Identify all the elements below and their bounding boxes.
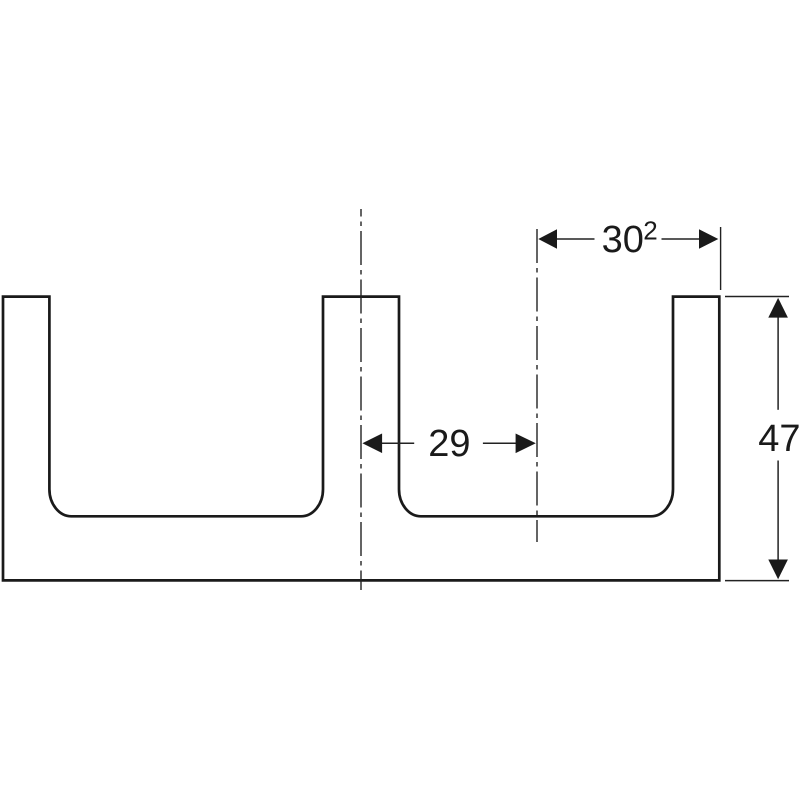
dimension 47 line upper segment [777,317,779,410]
dimension 29 line left segment [382,442,414,444]
svg-text:47: 47 [758,418,800,460]
centerline left [360,209,362,590]
dimension 302 line right segment [662,238,701,240]
arrowhead 47 top [768,298,788,318]
extension line 302 [720,227,722,290]
arrowhead 302 left [538,229,557,249]
dimension 302 line left segment [556,238,595,240]
svg-text:2: 2 [643,216,657,246]
extension line 47 top [725,296,789,298]
dimension 47 line lower segment [777,461,779,561]
svg-text:30: 30 [602,219,644,261]
arrowhead 29 right [516,434,536,454]
svg-text:29: 29 [428,423,470,465]
arrowhead 29 left [362,434,382,454]
centerline right [536,225,538,542]
arrowhead 302 right [699,229,718,249]
extension line 47 bottom [725,580,789,582]
profile outline [3,297,719,581]
dimension 29 line right segment [483,442,516,444]
arrowhead 47 bottom [768,560,788,580]
